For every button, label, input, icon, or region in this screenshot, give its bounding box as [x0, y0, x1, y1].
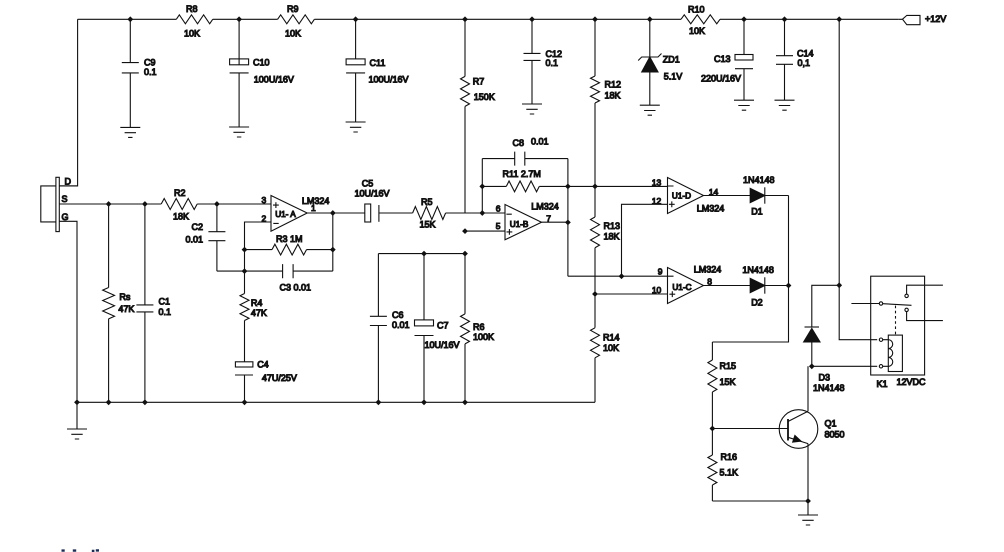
svg-text:10U/16V: 10U/16V — [355, 189, 390, 199]
wire pin2 to feedback — [245, 222, 272, 271]
svg-text:R8: R8 — [186, 4, 198, 14]
svg-text:U1- A: U1- A — [275, 210, 296, 219]
svg-text:C2: C2 — [191, 222, 203, 232]
svg-text:R3 1M: R3 1M — [276, 234, 303, 244]
svg-text:R13: R13 — [604, 221, 621, 231]
svg-text:0.1: 0.1 — [144, 67, 157, 77]
wire D1-D2 join vertical down to R15 — [712, 196, 788, 343]
capacitor C11 (electrolytic) — [346, 19, 365, 122]
relay NO contact — [907, 285, 943, 294]
svg-text:13: 13 — [652, 177, 662, 187]
wire U1-B feedback left vertical — [481, 159, 483, 213]
node junction dots on rail — [127, 16, 133, 22]
op-amp U1-A — [271, 196, 307, 232]
svg-text:100U/16V: 100U/16V — [254, 75, 294, 85]
svg-text:C7: C7 — [437, 320, 449, 330]
capacitor C12 — [524, 19, 541, 104]
resistor R5 — [413, 207, 446, 220]
wire left vertical from rail to connector D pin — [59, 19, 77, 186]
svg-text:150K: 150K — [474, 92, 495, 102]
svg-text:R12: R12 — [605, 80, 622, 90]
ground below ZD1 — [640, 105, 660, 115]
svg-text:C14: C14 — [797, 49, 814, 59]
svg-text:LM324: LM324 — [697, 204, 725, 214]
svg-text:R2: R2 — [174, 188, 186, 198]
svg-text:+12V: +12V — [925, 14, 946, 24]
svg-text:D2: D2 — [751, 298, 763, 308]
svg-text:R7: R7 — [473, 77, 485, 87]
pin G — [59, 221, 77, 402]
wire U1-B feedback right vertical / output — [542, 159, 668, 277]
svg-text:G: G — [62, 212, 69, 222]
resistor R10 — [681, 15, 720, 24]
capacitor C8 — [482, 152, 568, 166]
resistor R3 — [245, 249, 333, 251]
svg-text:Rs: Rs — [119, 292, 130, 302]
svg-text:U1-B: U1-B — [510, 220, 529, 229]
junction dots misc — [421, 251, 427, 257]
wire bottom ground rail — [77, 401, 595, 403]
ground below C13 — [734, 100, 754, 110]
svg-text:K1: K1 — [877, 379, 888, 389]
svg-text:12: 12 — [652, 196, 662, 206]
svg-text:9: 9 — [658, 266, 663, 276]
svg-text:C6: C6 — [392, 310, 404, 320]
svg-text:10U/16V: 10U/16V — [425, 340, 460, 350]
ground below C9 — [120, 127, 140, 137]
wire top +12V rail — [78, 18, 899, 20]
svg-text:47K: 47K — [118, 304, 134, 314]
op-amp U1-C — [668, 268, 704, 304]
svg-text:220U/16V: 220U/16V — [701, 74, 741, 84]
op-amp U1-D — [668, 178, 704, 214]
svg-text:100U/16V: 100U/16V — [369, 75, 409, 85]
relay actuator dashed link — [895, 306, 897, 335]
ground below C14 — [775, 100, 795, 110]
capacitor C6 — [370, 254, 387, 403]
svg-text:10K: 10K — [285, 29, 301, 39]
connector J1 shell — [41, 186, 56, 222]
resistor R16 — [708, 455, 717, 485]
relay common contact — [851, 303, 879, 305]
svg-text:C3 0.01: C3 0.01 — [280, 283, 312, 293]
svg-text:D: D — [65, 177, 72, 187]
resistor R15 — [711, 342, 713, 429]
svg-text:C10: C10 — [253, 58, 270, 68]
svg-text:5.1K: 5.1K — [720, 467, 739, 477]
ground below C11 — [346, 122, 366, 132]
svg-text:R15: R15 — [720, 361, 737, 371]
svg-text:8050: 8050 — [825, 429, 845, 439]
svg-text:100K: 100K — [473, 332, 494, 342]
svg-text:3: 3 — [261, 195, 266, 205]
wire U1-C output — [704, 285, 789, 287]
wire emitter bottom row — [712, 500, 808, 502]
wire pin10 row — [595, 293, 668, 295]
capacitor C5 (electrolytic) — [365, 204, 371, 222]
wire U1-A output row — [307, 212, 412, 214]
relay coil — [888, 335, 902, 371]
capacitor C3 — [217, 264, 333, 278]
svg-text:C9: C9 — [144, 57, 156, 67]
transistor Q1 8050 — [779, 410, 818, 449]
svg-text:C1: C1 — [159, 297, 171, 307]
svg-text:47U/25V: 47U/25V — [262, 373, 297, 383]
resistor R13 — [591, 217, 600, 248]
svg-text:1N4148: 1N4148 — [742, 265, 774, 275]
wire pin5 from R7 line — [465, 230, 505, 232]
diode D3 flyback — [812, 285, 839, 366]
svg-text:C4: C4 — [257, 359, 269, 369]
svg-text:R9: R9 — [287, 4, 299, 14]
svg-text:0.01: 0.01 — [531, 136, 549, 146]
wire pin13 reference row — [568, 185, 668, 187]
wire U1-D output — [704, 195, 789, 197]
capacitor C13 (electrolytic) — [735, 19, 753, 100]
svg-text:S: S — [62, 194, 68, 204]
pin D — [59, 185, 77, 187]
svg-text:0.01: 0.01 — [185, 235, 203, 245]
svg-text:0,1: 0,1 — [798, 58, 811, 68]
svg-text:R4: R4 — [251, 298, 263, 308]
capacitor C2 — [208, 204, 225, 271]
ground bottom-left — [76, 402, 78, 429]
svg-text:5: 5 — [496, 221, 501, 231]
svg-text:18K: 18K — [604, 232, 620, 242]
svg-text:U1-C: U1-C — [672, 283, 691, 292]
svg-text:R6: R6 — [473, 322, 485, 332]
op-amp U1-B — [505, 205, 542, 240]
svg-text:D3: D3 — [819, 372, 831, 382]
terminal +12V — [899, 15, 920, 24]
capacitor C1 — [136, 204, 153, 402]
capacitor C7 (electrolytic) — [415, 254, 434, 403]
resistor R6 — [464, 254, 466, 403]
resistor R14 — [591, 328, 600, 358]
svg-text:0.1: 0.1 — [546, 58, 559, 68]
resistor R7 — [464, 19, 466, 213]
svg-text:C11: C11 — [370, 58, 386, 68]
svg-text:10: 10 — [652, 285, 662, 295]
svg-text:R16: R16 — [721, 452, 738, 462]
svg-text:ZD1: ZD1 — [663, 55, 680, 65]
relay NC contact — [905, 308, 908, 311]
svg-text:47K: 47K — [251, 308, 267, 318]
svg-text:5.1V: 5.1V — [664, 72, 683, 82]
svg-text:0.01: 0.01 — [392, 320, 410, 330]
zener diode ZD1 — [649, 19, 651, 105]
wire U1-A output/feedback vertical — [332, 213, 334, 271]
relay K1 box — [871, 276, 925, 375]
resistor R11 — [482, 185, 568, 187]
svg-text:1N4148: 1N4148 — [743, 175, 775, 185]
diode D1 — [750, 188, 765, 202]
capacitor C10 (electrolytic) — [230, 19, 249, 127]
resistor R8 — [176, 15, 212, 24]
svg-text:15K: 15K — [720, 377, 736, 387]
svg-text:1: 1 — [311, 203, 316, 213]
wire base row — [712, 428, 788, 430]
svg-text:10K: 10K — [603, 343, 619, 353]
svg-text:LM324: LM324 — [694, 265, 722, 275]
pin S — [59, 203, 161, 205]
wire D3/collector to relay coil — [812, 365, 877, 367]
svg-text:U1-D: U1-D — [672, 192, 691, 201]
svg-text:R11 2.7M: R11 2.7M — [503, 169, 541, 179]
svg-text:LM324: LM324 — [531, 201, 559, 211]
ground below Q1 emitter — [807, 501, 809, 515]
svg-text:R14: R14 — [603, 332, 620, 342]
capacitor C14 — [776, 19, 793, 100]
svg-text:10K: 10K — [689, 26, 705, 36]
svg-text:R5: R5 — [421, 197, 433, 207]
svg-text:C13: C13 — [714, 54, 731, 64]
resistor Rs — [108, 204, 110, 402]
svg-text:6: 6 — [496, 204, 501, 214]
resistor R12 — [594, 19, 596, 186]
svg-text:1N4148: 1N4148 — [813, 383, 845, 393]
svg-text:15K: 15K — [420, 220, 436, 230]
ground below C10 — [229, 127, 249, 137]
svg-text:C8: C8 — [513, 138, 525, 148]
svg-text:D1: D1 — [751, 207, 763, 217]
wire C6/C7 top row — [378, 253, 465, 255]
capacitor C9 — [122, 19, 139, 127]
wire pin12 loop — [622, 204, 668, 276]
svg-text:0.1: 0.1 — [159, 307, 172, 317]
resistor R4 — [244, 271, 246, 362]
cut-off caption fragment at bottom edge — [62, 549, 100, 552]
wire +12V down to relay — [839, 19, 877, 339]
diode D2 — [750, 278, 765, 292]
svg-text:10K: 10K — [184, 29, 200, 39]
svg-text:12VDC: 12VDC — [897, 377, 927, 387]
resistor R9 — [278, 15, 315, 24]
ground below C12 — [522, 104, 542, 114]
resistor R2 — [161, 199, 197, 210]
svg-text:Q1: Q1 — [825, 418, 837, 428]
svg-text:C5: C5 — [362, 178, 374, 188]
svg-text:R10: R10 — [688, 5, 705, 15]
svg-text:18K: 18K — [173, 211, 189, 221]
svg-text:18K: 18K — [605, 90, 621, 100]
capacitor C4 (electrolytic) — [235, 375, 253, 402]
